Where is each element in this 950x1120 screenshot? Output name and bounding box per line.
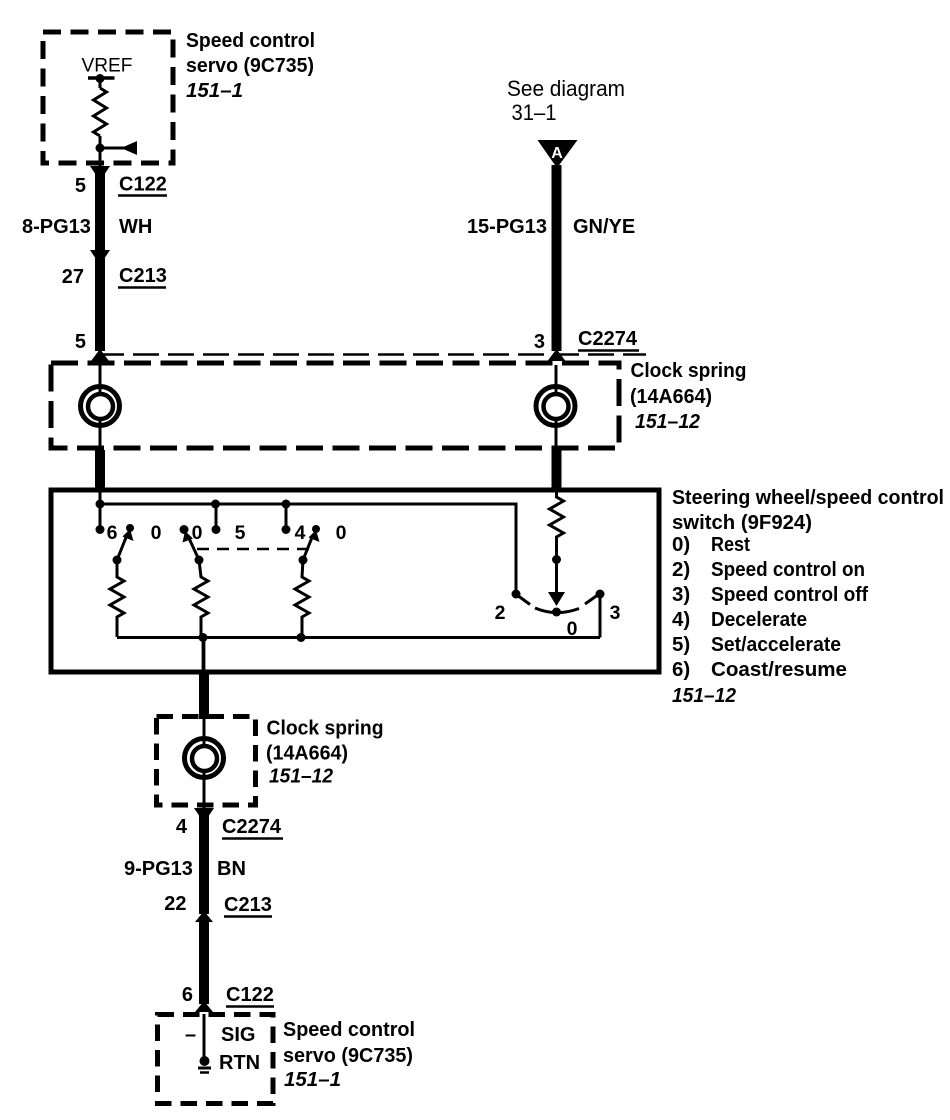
- clock spring coil right: [536, 387, 575, 426]
- switch arm S3 (decelerate): [303, 530, 320, 560]
- pivot dot on/off switch: [552, 608, 561, 617]
- wire label 9-PG13: [124, 858, 193, 880]
- contact label 5: [235, 522, 246, 544]
- wire color label BN: [217, 858, 246, 880]
- svg-text:4: 4: [295, 522, 306, 544]
- connector box: clock spring upper (dashed): [51, 363, 619, 448]
- contact dot 6: [96, 525, 105, 534]
- pin 3 label (C2274 right): [534, 331, 545, 353]
- pin 22 label (C213): [164, 893, 186, 915]
- svg-text:31–1: 31–1: [512, 100, 557, 125]
- svg-text:Clock spring: Clock spring: [267, 717, 384, 740]
- svg-text:VREF: VREF: [82, 56, 133, 77]
- node VREF label: [82, 56, 133, 77]
- svg-text:(14A664): (14A664): [630, 385, 712, 408]
- wire W1: 8-PG13 WH (thick): [95, 172, 105, 256]
- contact dot 3: [596, 590, 605, 599]
- svg-text:6: 6: [107, 522, 118, 544]
- svg-text:8-PG13: 8-PG13: [22, 216, 91, 238]
- wire resistor to wiper node: [99, 136, 102, 168]
- pin 27 label (C213): [62, 266, 84, 288]
- svg-text:Set/accelerate: Set/accelerate: [711, 633, 841, 656]
- wire out of left coil: [99, 421, 102, 450]
- svg-text:BN: BN: [217, 858, 246, 880]
- label: Clock spring (14A664) 151-12 (upper): [630, 359, 747, 433]
- wire label 15-PG13: [467, 216, 547, 238]
- rest label 0 (on/off): [567, 618, 578, 640]
- connector box U1b: speed control servo (bottom, dashed): [158, 1015, 274, 1104]
- svg-text:151–1: 151–1: [186, 79, 243, 102]
- wire VREF to resistor: [99, 78, 102, 88]
- wire W2 (thick, to clock spring): [95, 258, 105, 351]
- wire out of right coil: [555, 421, 558, 450]
- svg-text:15-PG13: 15-PG13: [467, 216, 547, 238]
- svg-text:3: 3: [610, 602, 621, 624]
- connector label C213 (lower): [224, 894, 272, 917]
- svg-text:151–12: 151–12: [672, 684, 737, 707]
- contact dot 2: [512, 590, 521, 599]
- connector label C122 (top): [118, 174, 167, 196]
- mechanical link (dashed) S2-S3: [197, 548, 311, 551]
- svg-text:Rest: Rest: [711, 533, 750, 556]
- svg-text:151–12: 151–12: [269, 765, 334, 788]
- connector arrow C213 pin 27 (down): [90, 250, 110, 265]
- svg-text:Speed control: Speed control: [283, 1018, 415, 1041]
- connector arrow C2274 pin 4 (down): [194, 808, 214, 823]
- connector box U1: speed control servo (top, dashed): [43, 32, 173, 163]
- SIG RTN labels: [219, 1024, 260, 1074]
- see diagram label: [507, 76, 625, 125]
- svg-text:Coast/resume: Coast/resume: [711, 658, 847, 681]
- minus label: [185, 1024, 196, 1046]
- resistor R1 (servo potentiometer): [94, 88, 107, 136]
- svg-text:6: 6: [182, 984, 193, 1006]
- svg-text:Decelerate: Decelerate: [711, 608, 807, 631]
- wire out of lower coil: [203, 773, 206, 808]
- wire into left coil: [99, 365, 102, 396]
- svg-text:5: 5: [75, 175, 86, 197]
- component box: steering wheel/speed control switch (solid): [51, 490, 659, 672]
- svg-text:2: 2: [495, 602, 506, 624]
- svg-text:C213: C213: [119, 265, 167, 287]
- wiper arm arrow (points left): [100, 141, 137, 155]
- rest label 0 (switch S3): [336, 522, 347, 544]
- connector line C2274 (thin dashed): [98, 353, 646, 356]
- connector arrow up into C2274 (left): [91, 349, 109, 361]
- connector label C213 (top): [118, 265, 167, 288]
- contact dot 4: [282, 525, 291, 534]
- svg-text:3): 3): [672, 583, 690, 606]
- travel arc segments: [517, 595, 597, 613]
- connector arrow up into C213 (pin 22): [195, 911, 213, 922]
- pivot dot S3: [299, 556, 308, 565]
- label: Steering wheel/speed control switch legend: [672, 486, 944, 707]
- pin 6 label (C122): [182, 984, 193, 1006]
- junction dot bus mid2: [282, 500, 291, 509]
- svg-text:C122: C122: [226, 984, 274, 1006]
- exit stub wire: [202, 637, 206, 673]
- wire W8 (thick, C213 to C122): [199, 920, 209, 1004]
- junction dot bus left: [96, 500, 105, 509]
- svg-text:SIG: SIG: [221, 1024, 255, 1046]
- svg-text:6): 6): [672, 658, 690, 681]
- pin 5 label (C122): [75, 175, 86, 197]
- resistor R5 (on/off ladder): [550, 492, 564, 559]
- pivot dot S1: [113, 556, 122, 565]
- svg-text:C213: C213: [224, 894, 272, 916]
- rest label 0 (switch S1): [151, 522, 162, 544]
- svg-text:5: 5: [235, 522, 246, 544]
- junction dot R5 bottom: [552, 555, 561, 564]
- label: Speed control servo (9C735) 151-1 (bottom): [283, 1018, 415, 1091]
- svg-text:2): 2): [672, 558, 690, 581]
- connector arrow C122 pin 5 (down): [90, 166, 110, 181]
- resistor R3 (switch S2): [194, 560, 208, 637]
- svg-text:4): 4): [672, 608, 690, 631]
- contact label 3: [610, 602, 621, 624]
- clock spring coil lower: [185, 739, 224, 778]
- svg-text:151–1: 151–1: [284, 1068, 341, 1091]
- switch arm S1 (coast/resume): [117, 529, 134, 560]
- wire W6 (thick, switch box to lower clock spring): [199, 672, 209, 719]
- label: Speed control servo (9C735) 151-1 (top): [186, 29, 315, 102]
- svg-text:switch (9F924): switch (9F924): [672, 511, 812, 534]
- wire W5 (thick, right coil to switch box): [552, 450, 562, 491]
- connector arrow up into C122 (pin 6): [195, 1001, 213, 1012]
- resistor R2 (switch S1): [110, 560, 124, 637]
- svg-text:0: 0: [151, 522, 162, 544]
- svg-text:5): 5): [672, 633, 690, 656]
- svg-text:0: 0: [336, 522, 347, 544]
- wire W3: 15-PG13 GN/YE (thick): [552, 165, 562, 351]
- resistor R4 (switch S3): [295, 560, 309, 637]
- svg-text:C2274: C2274: [222, 816, 282, 838]
- svg-text:(14A664): (14A664): [266, 742, 348, 765]
- wire inside servo box: [203, 1014, 206, 1058]
- svg-text:5: 5: [75, 331, 86, 353]
- off-page reference triangle A: [538, 140, 578, 168]
- contact label 4: [295, 522, 306, 544]
- svg-text:151–12: 151–12: [635, 410, 701, 433]
- svg-text:0: 0: [192, 522, 203, 544]
- clock spring coil left: [81, 387, 120, 426]
- svg-text:servo (9C735): servo (9C735): [186, 54, 314, 77]
- rest label 0 (switch S2): [192, 522, 203, 544]
- svg-text:3: 3: [534, 331, 545, 353]
- svg-text:See diagram: See diagram: [507, 76, 625, 101]
- svg-text:–: –: [185, 1024, 196, 1046]
- svg-text:4: 4: [176, 816, 188, 838]
- svg-text:Speed control off: Speed control off: [711, 583, 868, 606]
- svg-text:WH: WH: [119, 216, 152, 238]
- svg-text:GN/YE: GN/YE: [573, 216, 635, 238]
- wire W7: 9-PG13 BN (thick): [199, 814, 209, 914]
- arm shaft with down arrow (on/off switch): [548, 559, 565, 606]
- svg-text:C122: C122: [119, 174, 167, 196]
- svg-text:Steering wheel/speed control: Steering wheel/speed control: [672, 486, 944, 509]
- pin 4 label (C2274): [176, 816, 188, 838]
- bottom bus wire: [117, 636, 600, 639]
- stub to contact 4: [285, 504, 288, 529]
- wire into top bus: [99, 492, 102, 506]
- contact dot 5: [212, 525, 221, 534]
- wire into right coil: [555, 365, 558, 396]
- svg-text:Speed control on: Speed control on: [711, 558, 865, 581]
- stub to contact 6: [99, 504, 102, 529]
- svg-text:27: 27: [62, 266, 84, 288]
- connector label C2274 (right): [578, 328, 639, 351]
- arm tip dot S3: [312, 525, 320, 533]
- SIG RTN terminal dot: [198, 1056, 211, 1073]
- svg-text:C2274: C2274: [578, 328, 638, 350]
- arm tip dot S2: [180, 525, 189, 534]
- svg-text:A: A: [551, 145, 563, 162]
- arm tip dot S1: [126, 524, 134, 532]
- svg-text:RTN: RTN: [219, 1052, 260, 1074]
- pivot dot S2: [195, 556, 204, 565]
- wire W4 (thick, left coil to switch box): [95, 450, 105, 491]
- svg-text:9-PG13: 9-PG13: [124, 858, 193, 880]
- svg-text:Clock spring: Clock spring: [631, 359, 747, 382]
- wire label 8-PG13: [22, 216, 91, 238]
- connector label C2274 (lower): [222, 816, 283, 839]
- svg-text:Speed control: Speed control: [186, 29, 315, 52]
- switch arm S2 (set/accelerate): [183, 531, 200, 560]
- junction dot bottom bus left: [199, 633, 208, 642]
- stub to contact 5: [215, 504, 218, 529]
- VREF rail: [88, 76, 115, 80]
- wire into lower coil: [203, 718, 206, 748]
- junction dot wiper node: [96, 144, 105, 153]
- connector label C122 (lower): [226, 984, 274, 1007]
- wire color label GN/YE: [573, 216, 635, 238]
- contact label 2: [495, 602, 506, 624]
- junction dot under VREF: [96, 74, 105, 83]
- connector arrow up into C2274 (right): [548, 349, 566, 361]
- junction dot bottom bus right: [297, 633, 306, 642]
- wire color label WH: [119, 216, 152, 238]
- connector box: clock spring lower (dashed): [157, 717, 256, 806]
- svg-text:0): 0): [672, 533, 690, 556]
- svg-text:22: 22: [164, 893, 186, 915]
- svg-text:servo (9C735): servo (9C735): [283, 1044, 413, 1067]
- label: Clock spring (14A664) 151-12 (lower): [266, 717, 384, 788]
- top bus wire: [100, 504, 516, 594]
- pin 5 label (C2274 left): [75, 331, 86, 353]
- wire contact3 to bottom bus: [599, 594, 602, 638]
- svg-text:0: 0: [567, 618, 578, 640]
- junction dot bus mid1: [211, 500, 220, 509]
- contact label 6: [107, 522, 118, 544]
